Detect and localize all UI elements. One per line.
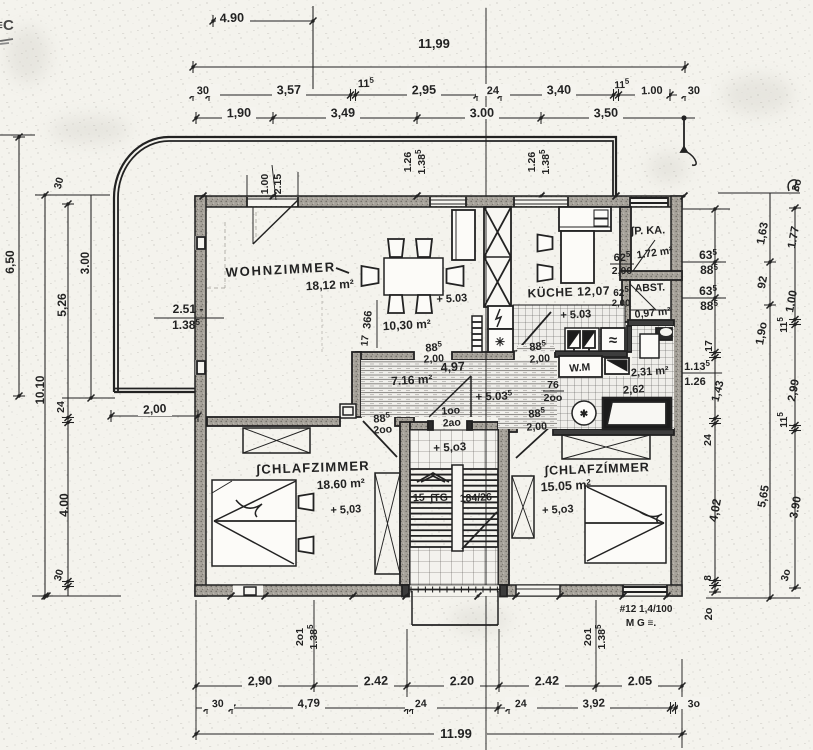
kueche stove unit [565, 328, 599, 351]
svg-text:3,50: 3,50 [593, 106, 618, 121]
svg-text:2.05: 2.05 [627, 674, 652, 689]
svg-text:ʃP. KA.: ʃP. KA. [629, 224, 665, 237]
svg-text:+ 5.035: + 5.035 [475, 388, 513, 403]
bad tile floor lower [555, 376, 674, 429]
electric symbol box [488, 306, 513, 329]
svg-text:92: 92 [756, 275, 770, 290]
svg-text:2,00: 2,00 [423, 352, 444, 365]
wall kueche-spka vertical [620, 207, 631, 271]
dining table [384, 258, 443, 295]
stair landing bottom grid [410, 547, 498, 585]
dim 5,26 col [67, 204, 69, 596]
svg-text:2,90: 2,90 [247, 674, 272, 689]
wall bedroom1 top right stub [395, 417, 414, 426]
svg-text:+ 5,o3: + 5,o3 [542, 503, 574, 517]
svg-text:2,00: 2,00 [529, 352, 550, 365]
svg-text:24: 24 [55, 401, 67, 413]
wall corridor top west segment [356, 352, 414, 360]
svg-text:15.05 m2: 15.05 m2 [540, 478, 592, 495]
bedroom1 bed [212, 480, 296, 566]
window bottom wall bedroom2 [623, 586, 667, 596]
svg-text:30: 30 [212, 698, 224, 711]
window bottom wall center [516, 586, 560, 596]
svg-text:7.16 m²: 7.16 m² [391, 372, 433, 388]
dim 24 right rot [709, 418, 721, 420]
svg-text:✱: ✱ [580, 409, 589, 420]
svg-text:M G ≡.: M G ≡. [626, 618, 657, 629]
svg-text:✳: ✳ [495, 335, 505, 349]
corridor left wall stub box [340, 404, 356, 418]
svg-text:4.90: 4.90 [219, 11, 244, 26]
bad tile floor upper [632, 326, 674, 398]
balcony bottom edge [114, 391, 200, 393]
svg-text:1.00: 1.00 [259, 174, 271, 195]
svg-text:2,95: 2,95 [411, 83, 436, 98]
leader y398 [62, 397, 115, 399]
dim 11.99 bottom [196, 733, 434, 735]
section line vertical [485, 8, 487, 196]
svg-text:1.26: 1.26 [402, 152, 414, 173]
svg-text:KÜCHE 12,07: KÜCHE 12,07 [527, 283, 610, 301]
kueche dishwasher [601, 328, 625, 351]
sideboard wohnzimmer [452, 210, 475, 260]
right col1 line [714, 209, 716, 592]
dim row 1,90|3,49|3,00|3,50 [196, 117, 695, 119]
spka door swing [633, 240, 655, 271]
wall outer left [195, 196, 206, 596]
wall corridor top mid segment [452, 352, 514, 360]
svg-text:2o1: 2o1 [294, 628, 306, 646]
dim 2,00 balcony [111, 415, 198, 417]
door extension stubs [246, 175, 248, 196]
svg-text:+ 5.03: + 5.03 [436, 292, 467, 306]
dim 11,99 top [193, 66, 685, 68]
dim row 30|4,79|24|24|3,92|30 [196, 707, 678, 709]
svg-text:24: 24 [415, 698, 427, 711]
svg-text:2.42: 2.42 [363, 674, 388, 689]
svg-text:3o: 3o [687, 698, 700, 711]
svg-text:10,30 m²: 10,30 m² [382, 317, 431, 333]
kueche counter right column [561, 231, 594, 283]
dim row 2,90|2.42|2.20|2.42|2.05 [196, 685, 682, 687]
svg-text:18.60 m²: 18.60 m² [316, 476, 365, 492]
svg-text:11,99: 11,99 [418, 36, 450, 51]
svg-text:#12 1,4/100: #12 1,4/100 [620, 604, 673, 615]
entry threshold tick line [408, 589, 501, 591]
toilet [572, 401, 596, 425]
chimney block wohnzimmer-kueche [484, 207, 511, 307]
svg-text:W.M: W.M [569, 361, 591, 374]
stair up arrow [417, 473, 449, 482]
svg-text:1.00: 1.00 [641, 85, 663, 98]
balcony door opening top wall [247, 198, 298, 207]
bad bidet square [640, 334, 659, 358]
svg-text:17: 17 [360, 334, 372, 346]
window left wall lower [196, 360, 206, 375]
wall spka-abst [620, 271, 682, 280]
svg-text:+ 5,o3: + 5,o3 [433, 441, 467, 455]
right col3 line [794, 208, 796, 588]
wall crossing ticks bottom [228, 593, 235, 600]
stair door posts [428, 421, 433, 430]
dim 6,50 [0, 134, 35, 136]
svg-text:1.26: 1.26 [526, 152, 538, 173]
svg-text:ʃTG: ʃTG [429, 492, 449, 505]
wall bedroom2 top west [509, 422, 517, 432]
svg-text:≡C: ≡C [0, 17, 14, 34]
dim 635/885 pair1 [682, 261, 726, 263]
svg-text:2o1: 2o1 [582, 628, 594, 646]
svg-text:2oo: 2oo [544, 392, 563, 404]
window kueche top wall [514, 198, 568, 207]
dim 1.135/1.26 [682, 372, 722, 374]
svg-text:76: 76 [547, 379, 559, 391]
svg-text:2o: 2o [703, 607, 715, 620]
star symbol box [488, 329, 513, 352]
wall outer right [671, 196, 682, 596]
svg-text:2,62: 2,62 [623, 383, 645, 396]
svg-text:4,79: 4,79 [297, 697, 320, 710]
leader y596 left [32, 595, 121, 597]
svg-text:3,40: 3,40 [546, 83, 571, 98]
svg-text:2.42: 2.42 [534, 674, 559, 689]
wall bad left upper [627, 326, 632, 352]
section marker arrow [683, 118, 685, 151]
wall corridor left vertical [352, 352, 361, 417]
bedroom1 wardrobe right [375, 473, 400, 574]
corridor hatch floor [361, 360, 557, 429]
svg-text:15: 15 [413, 492, 425, 505]
stair diagonal [462, 512, 497, 549]
svg-text:3,49: 3,49 [330, 106, 355, 121]
bedroom1 door swing [363, 421, 397, 457]
window bottom wall bedroom1 [233, 586, 263, 596]
stair door leaf in corridor [470, 376, 472, 417]
svg-text:2ao: 2ao [442, 416, 461, 429]
svg-text:24: 24 [702, 434, 714, 446]
dining chairs bottom [388, 295, 404, 313]
window left wall upper [196, 236, 206, 250]
wall abst-bad [628, 320, 674, 326]
balcony door swing [253, 200, 298, 244]
wall abst left stub [622, 280, 630, 322]
small appliance box [605, 358, 629, 374]
squiggle mark top right [788, 180, 799, 191]
wall bedroom2 top east / bad bottom [553, 429, 674, 435]
entry steps below building [411, 591, 413, 625]
washing machine W.M [559, 356, 602, 377]
svg-text:2oo: 2oo [373, 423, 392, 436]
svg-text:11.99: 11.99 [440, 726, 472, 741]
pencil dashed lines wohnzimmer [224, 222, 226, 288]
wall bad left stub lower [557, 414, 570, 429]
svg-text:1,90: 1,90 [226, 106, 251, 121]
window spka top wall [630, 198, 668, 207]
svg-text:≈: ≈ [609, 332, 617, 349]
svg-text:184/26: 184/26 [459, 491, 492, 505]
svg-text:2,00: 2,00 [612, 298, 631, 309]
right col2 line [769, 193, 771, 598]
extension line x313 [312, 6, 314, 89]
dim 18 bottom right [709, 580, 721, 582]
stair treads [410, 468, 498, 470]
bathtub [603, 398, 671, 429]
bedroom2 wardrobe top [562, 435, 650, 459]
svg-text:2,00: 2,00 [612, 265, 633, 277]
svg-text:24: 24 [515, 698, 527, 711]
svg-text:5,26: 5,26 [55, 293, 69, 317]
svg-text:4.00: 4.00 [57, 493, 71, 517]
svg-text:ABST.: ABST. [635, 281, 666, 294]
svg-text:2.51 -: 2.51 - [173, 302, 204, 316]
bedroom1 nightstands [299, 494, 314, 511]
wall outer bottom [195, 585, 682, 596]
wall outer top [195, 196, 682, 207]
svg-text:8: 8 [703, 575, 714, 581]
abst door swing [630, 284, 656, 310]
svg-text:17: 17 [703, 340, 715, 352]
dim 3.00 col [90, 195, 92, 398]
bedroom2 bed [585, 486, 666, 563]
svg-text:2,00: 2,00 [143, 401, 168, 417]
svg-text:1.26: 1.26 [684, 376, 705, 388]
svg-text:+ 5.03: + 5.03 [560, 308, 591, 322]
bad door swing [563, 381, 594, 413]
bedroom1 wardrobe top [243, 428, 310, 453]
dining chair right [447, 266, 464, 286]
bad sink [656, 328, 672, 340]
niche hatch [517, 345, 555, 352]
kueche chairs [538, 235, 553, 252]
section line hook [687, 152, 696, 165]
wall stairwell right [498, 422, 509, 585]
svg-text:3,57: 3,57 [276, 83, 301, 98]
dining chair left [362, 266, 379, 286]
wall crossing ticks top [200, 193, 207, 200]
abst shelf line [630, 309, 671, 311]
svg-text:366: 366 [361, 310, 375, 329]
bedroom2 door swing [516, 424, 553, 458]
radiator ladder [472, 316, 482, 352]
svg-text:3,92: 3,92 [582, 697, 605, 710]
kueche counter top [559, 207, 611, 231]
svg-text:3.00: 3.00 [469, 106, 494, 121]
dim row 30|3,57|115|2,95|24|3,40|115|1.00|30 [193, 94, 685, 96]
svg-text:10.10: 10.10 [35, 376, 47, 405]
bedroom2 wardrobe left [512, 476, 534, 538]
svg-text:24: 24 [487, 85, 501, 97]
stair landing top grid [410, 430, 498, 469]
svg-text:30: 30 [688, 85, 701, 97]
svg-text:2,00: 2,00 [526, 420, 547, 433]
dining chairs top [388, 239, 404, 257]
svg-text:6,50: 6,50 [3, 250, 17, 274]
svg-text:2.20: 2.20 [449, 674, 474, 689]
svg-text:30: 30 [197, 85, 210, 97]
wall stairwell left [400, 422, 410, 585]
paper smudges [6, 27, 793, 634]
dim 30 left top [35, 194, 110, 196]
window wohnzimmer top wall [430, 198, 466, 207]
svg-text:18,12 m²: 18,12 m² [305, 277, 354, 293]
stair opening in bottom wall [408, 585, 501, 596]
dim 635/885 pair2 [682, 297, 726, 299]
svg-text:3.00: 3.00 [80, 252, 92, 274]
wall stairwell top segments [410, 422, 428, 430]
dim 4.90 [213, 20, 313, 22]
balcony outer wall (curved) [114, 137, 616, 392]
kueche tile floor [513, 305, 625, 351]
svg-text:+ 5,03: + 5,03 [330, 503, 361, 517]
kueche door swing [517, 312, 551, 351]
extension lines bottom [313, 600, 315, 686]
wall kueche-bad niche [555, 351, 627, 357]
dim 10.10 [44, 195, 46, 596]
wall bedroom1 top [207, 417, 340, 426]
stair stringer [452, 465, 463, 551]
